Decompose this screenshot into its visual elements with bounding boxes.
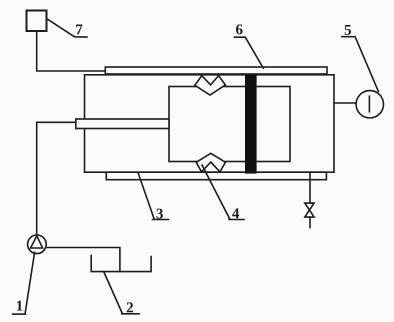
top plate 6 [105,67,327,74]
top seal element 4 [195,76,226,95]
leader line for label 7 [47,19,88,38]
leader line for label 4 [202,165,230,219]
piston bar (solid) [245,75,257,173]
leader line for label 1 [25,252,34,313]
leader line for label 3 [138,173,154,219]
label 1 [17,301,23,311]
inner chamber box [169,87,290,162]
bottom plate [106,172,326,180]
pipe from cylinder to gauge [334,102,356,104]
wire from box 7 to top plate [37,32,105,72]
leader line for label 2 [104,272,123,314]
label 4 [232,208,239,218]
label 7 [76,24,82,34]
pressure gauge 5 [356,91,383,118]
pipe from pump to tank [46,248,120,272]
leader line for label 6 [235,37,264,68]
pipe below valve [309,217,311,228]
controller box 7 [27,11,47,32]
label 2 [127,302,133,312]
bottom seal element 4 [196,153,225,172]
drain pipe to valve [309,172,311,203]
label 6 [236,24,243,34]
drain valve [305,203,314,210]
pipe from pump to rod [37,122,76,235]
label 5 [345,25,351,35]
outer cylinder body 3 [85,75,335,172]
pump 1 circle [28,235,47,254]
tank 2 [91,256,151,272]
piston rod with end cap [76,119,169,129]
label 3 [156,209,162,219]
leader line for label 5 [342,37,379,92]
pump 1 triangle [31,236,43,248]
gauge needle [368,96,370,112]
